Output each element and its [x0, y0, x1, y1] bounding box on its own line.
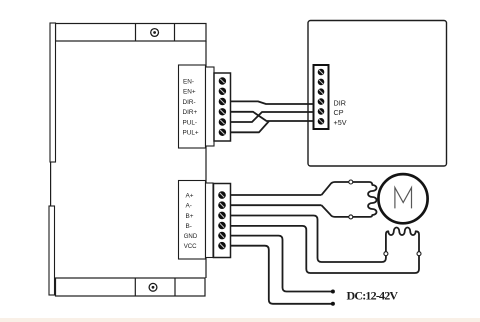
upper screw terminal block J1 — [214, 73, 231, 141]
motor socket right latch hole — [417, 252, 421, 256]
lower terminal label box — [179, 181, 206, 260]
wire DIR- to DIR — [231, 101, 314, 104]
screw terminal B+ — [218, 212, 226, 220]
svg-text:+5V: +5V — [334, 118, 347, 127]
header pin 1 — [318, 69, 325, 76]
header pin 5 CP — [318, 108, 325, 115]
svg-text:DIR-: DIR- — [183, 99, 196, 106]
screw terminal DIR+ — [219, 108, 226, 115]
screw terminal EN+ — [219, 88, 226, 95]
driver body right edge — [205, 41, 207, 278]
svg-text:PUL-: PUL- — [183, 119, 198, 126]
svg-text:A+: A+ — [186, 192, 194, 199]
driver bottom mounting bar — [56, 278, 206, 296]
screw terminal PUL+ — [219, 129, 226, 136]
DC supply positive terminal — [331, 290, 335, 294]
screw terminal A+ — [218, 191, 226, 199]
svg-text:B-: B- — [186, 223, 192, 230]
bottom cream band — [0, 318, 480, 322]
DC supply negative terminal — [331, 302, 335, 306]
svg-text:A-: A- — [186, 203, 192, 210]
svg-text:VCC: VCC — [184, 243, 197, 250]
driver left edge middle segment — [50, 162, 52, 206]
svg-text:EN+: EN+ — [183, 89, 196, 96]
wire VCC to DC supply — [231, 246, 333, 304]
header pin 6 +5V — [318, 118, 325, 125]
upper terminal labels EN-/EN+/DIR-/DIR+/PUL-/PUL+ — [183, 78, 199, 136]
svg-text:PUL+: PUL+ — [183, 130, 199, 137]
screw terminal DIR- — [219, 98, 226, 105]
wire PUL- to CP — [231, 112, 314, 122]
motor plug bottom latch hole — [349, 215, 353, 219]
lower screw terminal block J2 — [214, 184, 231, 258]
wire A+ to motor plug — [231, 194, 322, 196]
svg-text:DIR: DIR — [334, 98, 346, 107]
wire B+ to motor socket left — [231, 216, 386, 263]
wire B- to motor socket right — [231, 226, 420, 273]
driver top mounting screw — [151, 29, 159, 37]
motor plug top latch hole — [349, 180, 353, 184]
screw terminal PUL- — [219, 118, 226, 125]
upper connector base strip — [206, 67, 215, 146]
screw terminal EN- — [219, 77, 226, 84]
motor plug P1 outline — [322, 182, 377, 217]
lower connector base strip — [206, 183, 214, 258]
driver bottom mounting screw — [149, 283, 157, 291]
motor M1 body — [378, 174, 427, 223]
driver left flange lower strip — [49, 206, 55, 295]
controller box U2 — [308, 21, 447, 167]
svg-text:GND: GND — [184, 233, 198, 240]
wire PUL+ joining +5V wire — [231, 121, 270, 132]
header pin 3 — [318, 88, 325, 95]
wire A- to motor plug — [231, 204, 322, 206]
header pin 2 — [318, 79, 325, 86]
screw terminal B- — [218, 222, 226, 230]
driver U1 top mounting bar — [56, 24, 207, 42]
driver left flange upper strip — [50, 23, 56, 162]
wire DIR+ to +5V — [231, 112, 314, 121]
wire GND to DC supply — [231, 236, 333, 292]
screw terminal A- — [218, 201, 226, 209]
lower terminal labels A+/A-/B+/B-/GND/VCC — [184, 192, 198, 250]
svg-text:CP: CP — [334, 108, 344, 117]
motor socket left latch hole — [384, 252, 388, 256]
screw terminal GND — [218, 232, 226, 240]
upper terminal label box — [179, 65, 206, 148]
screw terminal VCC — [218, 242, 226, 250]
motor letter M — [395, 188, 412, 209]
svg-text:DIR+: DIR+ — [183, 109, 198, 116]
svg-text:EN-: EN- — [183, 78, 194, 85]
svg-text:DC:12-42V: DC:12-42V — [347, 289, 399, 303]
motor socket P2 outline — [386, 228, 419, 270]
controller header connector J3 — [314, 65, 329, 129]
svg-text:B+: B+ — [186, 213, 194, 220]
header pin 4 DIR — [318, 98, 325, 105]
